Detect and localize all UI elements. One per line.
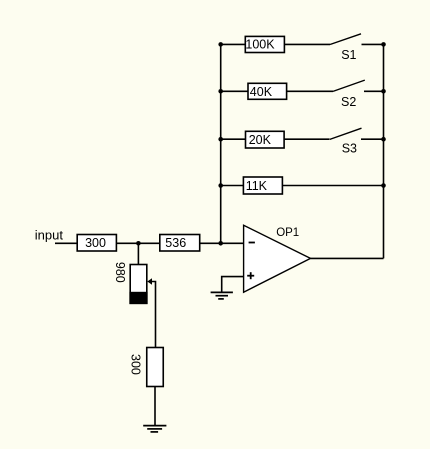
svg-text:11K: 11K (246, 179, 268, 193)
wire: left feedback bus (220, 44, 222, 243)
wire: input lead (55, 242, 77, 244)
junction: left bus row4 (218, 183, 223, 188)
svg-text:OP1: OP1 (276, 227, 299, 239)
wire: right output bus (383, 44, 385, 258)
junction: right bus row4 (381, 183, 386, 188)
resistor 300 (to ground) (129, 348, 164, 387)
switch S1 (330, 34, 361, 62)
wire: op-amp output to right bus (311, 257, 384, 259)
resistor 40K (248, 83, 287, 99)
junction: left bus row1 (218, 42, 223, 47)
wire: 536 resistor to inverting input (200, 242, 244, 244)
wire: switch S2 right contact (364, 90, 384, 92)
svg-text:input: input (35, 228, 64, 243)
svg-text:S3: S3 (342, 142, 357, 156)
svg-text:300: 300 (129, 354, 143, 375)
wire: row1 resistor to switch S1 (284, 43, 330, 45)
resistor 100K (245, 36, 284, 52)
wire: wiper to series resistor (152, 282, 156, 348)
resistor 11K (243, 177, 282, 194)
wire: node A down to potentiometer (137, 243, 139, 264)
wire: switch S1 right contact (362, 43, 384, 45)
svg-text:S2: S2 (341, 95, 356, 109)
wire: row3 left segment (221, 138, 246, 140)
svg-text:S1: S1 (341, 48, 356, 62)
ground (op-amp non-inverting input) (211, 292, 233, 299)
junction: left bus row2 (218, 89, 223, 94)
svg-text:20K: 20K (249, 133, 272, 147)
resistor 536 (160, 235, 200, 252)
svg-text:40K: 40K (250, 85, 273, 99)
wire: row4 left segment (221, 185, 244, 187)
junction: right bus row1 (381, 42, 386, 47)
wire: non-inverting input to ground (222, 277, 244, 293)
node A: input/536/pot junction (136, 241, 141, 246)
junction: right bus row3 (381, 137, 386, 142)
resistor 300 (input series) (77, 235, 116, 252)
svg-text:536: 536 (165, 236, 186, 250)
potentiometer 980 (113, 262, 152, 303)
svg-text:980: 980 (113, 262, 127, 283)
wire: switch S3 right contact (361, 138, 384, 140)
switch S3 (330, 128, 362, 155)
op-amp OP1 (244, 225, 311, 292)
wire: row3 resistor to switch S3 (284, 138, 329, 140)
wire: input resistor to node A (116, 242, 159, 244)
svg-text:300: 300 (85, 236, 106, 250)
resistor 20K (246, 131, 285, 148)
wire: row4 resistor to right bus (282, 185, 383, 187)
wire: row1 left segment (221, 43, 246, 45)
junction: left bus inverting input (218, 241, 223, 246)
wire: series resistor to bottom ground (154, 387, 156, 426)
junction: left bus row3 (218, 137, 223, 142)
junction: right bus row2 (381, 89, 386, 94)
wire: row2 left segment (221, 90, 248, 92)
wire: row2 resistor to switch S2 (287, 90, 333, 92)
switch S2 (333, 80, 365, 109)
ground (bottom) (143, 426, 166, 432)
svg-text:100K: 100K (245, 38, 275, 52)
